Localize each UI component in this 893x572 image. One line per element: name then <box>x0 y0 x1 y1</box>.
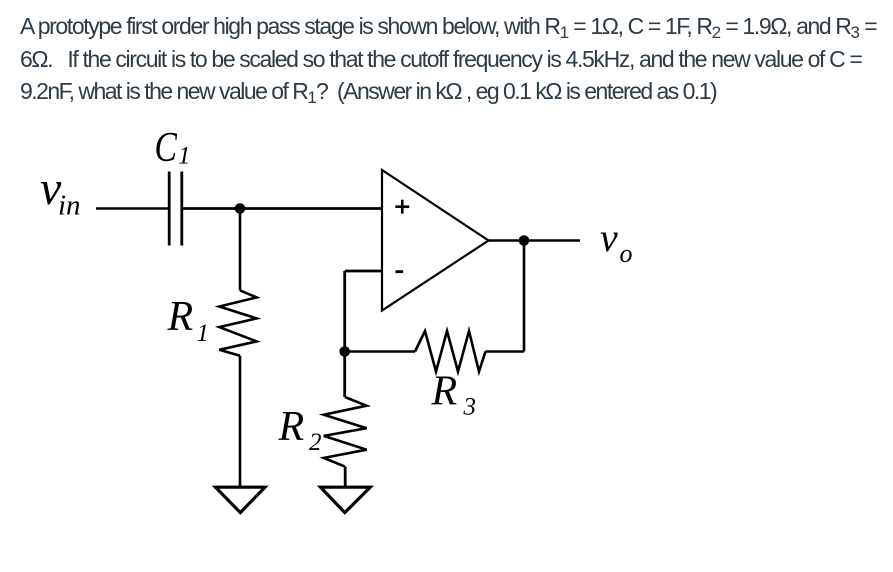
wire node B down to R2 <box>343 352 346 398</box>
capacitor C1 value label <box>155 125 191 171</box>
wire feedback right vertical <box>523 241 526 352</box>
svg-text:v: v <box>600 215 618 260</box>
wire node B to R3 <box>345 350 415 353</box>
svg-text:in: in <box>58 190 81 222</box>
node A junction dot <box>235 203 246 214</box>
resistor R2 label <box>278 404 322 456</box>
wire R3 to feedback right vertical <box>486 350 525 353</box>
wire op-amp - input stub <box>345 270 382 273</box>
wire feedback left vertical <box>343 271 346 352</box>
resistor R3 <box>415 331 486 372</box>
capacitor C1 <box>169 172 182 246</box>
wire R2 to ground <box>344 467 347 487</box>
resistor R1 label <box>167 294 210 347</box>
resistor R3 label <box>431 369 477 421</box>
ground (below R2) <box>321 487 371 512</box>
svg-text:3: 3 <box>463 394 477 421</box>
svg-text:R: R <box>167 294 194 340</box>
wire R1 to ground <box>239 356 242 487</box>
node Vo label <box>600 215 633 268</box>
wire node A down to R1 <box>239 209 242 291</box>
op-amp U1 <box>382 170 489 311</box>
svg-text:2: 2 <box>309 429 322 456</box>
op-amp U1 + input marking <box>395 200 409 214</box>
node C junction dot (output) <box>519 235 530 246</box>
wire op-amp output <box>489 239 581 242</box>
svg-text:1: 1 <box>178 143 191 170</box>
svg-text:o: o <box>620 239 633 268</box>
node B junction dot (inverting input / R2 / R3) <box>339 346 350 357</box>
wire capacitor to op-amp + input <box>183 207 382 210</box>
ground (below R1) <box>216 487 266 512</box>
svg-text:1: 1 <box>197 320 210 347</box>
node Vin label <box>40 162 81 222</box>
svg-text:C: C <box>155 125 178 171</box>
svg-text:R: R <box>431 369 458 415</box>
resistor R2 <box>324 397 367 467</box>
op-amp U1 - input marking <box>396 270 404 273</box>
wire Vin input <box>96 207 168 210</box>
resistor R1 <box>219 290 256 355</box>
svg-text:R: R <box>278 404 305 450</box>
